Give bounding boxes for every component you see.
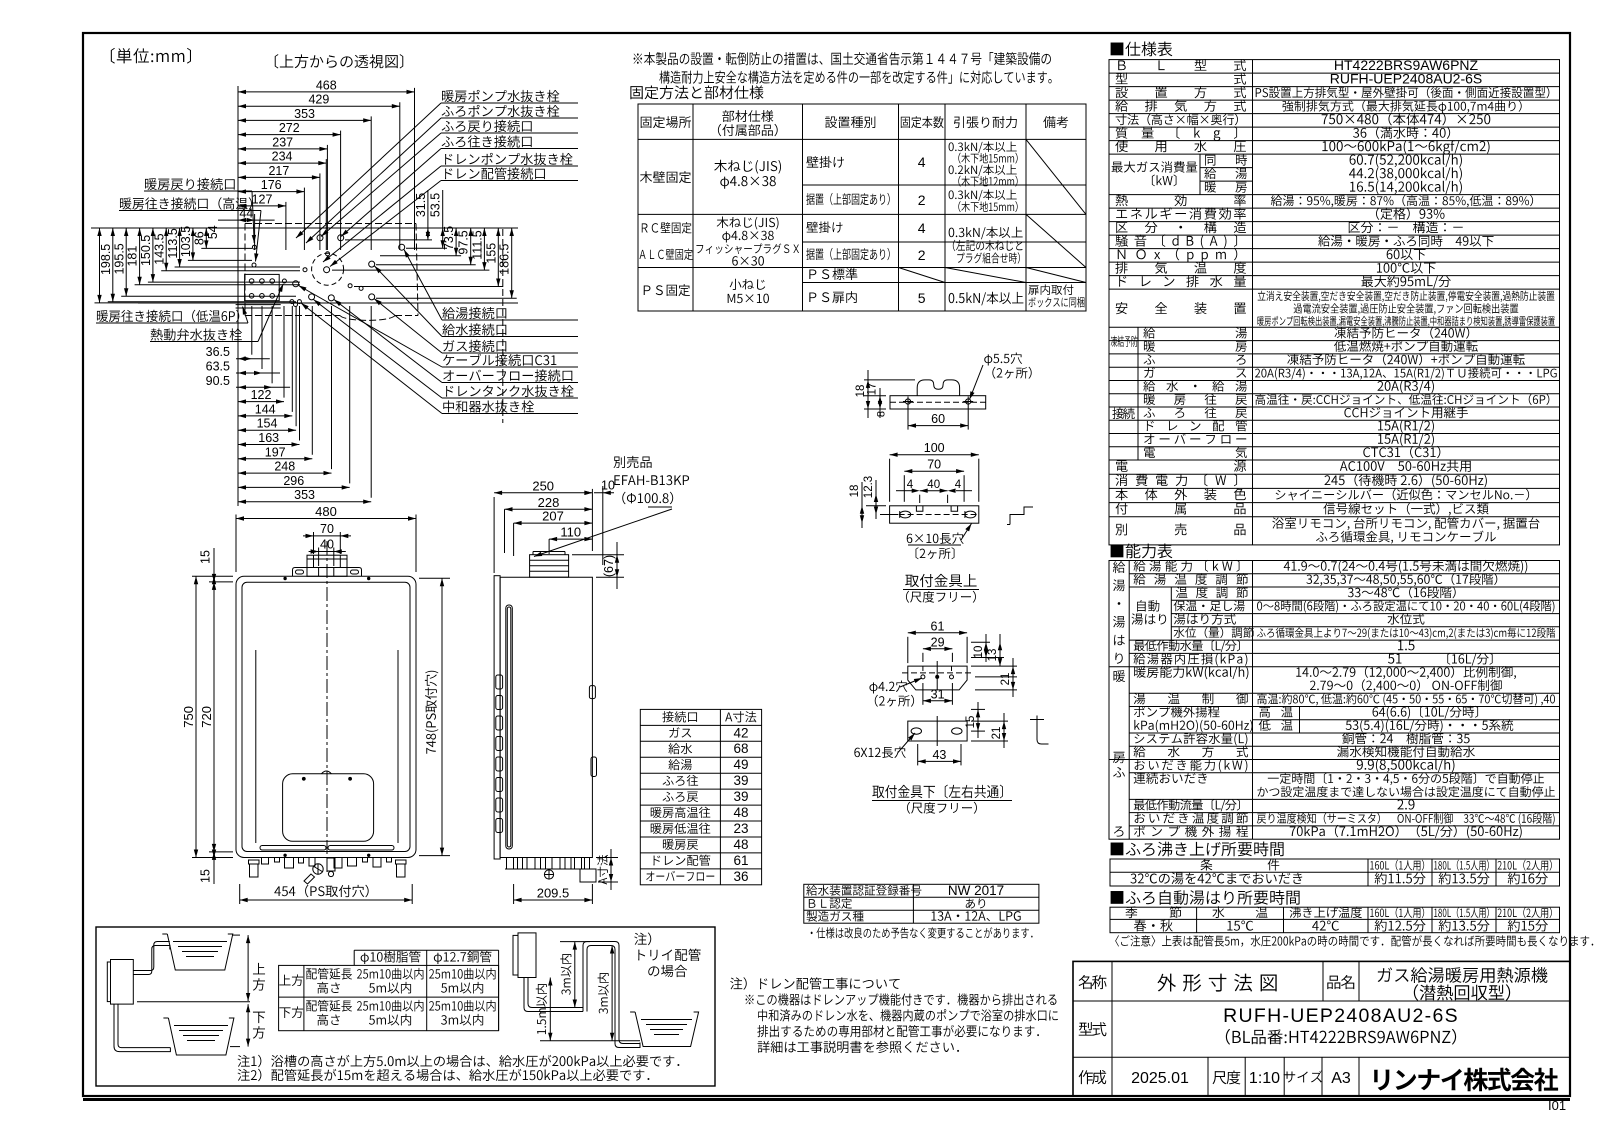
- torii diagram: [518, 933, 536, 978]
- torii dims: [549, 978, 551, 1041]
- unit note: [111, 48, 191, 64]
- svg-text:296: 296: [283, 474, 304, 488]
- box notes: [238, 1055, 680, 1068]
- svg-text:176: 176: [261, 178, 282, 192]
- svg-text:15: 15: [199, 550, 213, 564]
- svg-text:186.5: 186.5: [498, 244, 512, 275]
- bracket lower: part2: [908, 721, 967, 741]
- svg-text:2: 2: [918, 192, 926, 208]
- svg-text:197: 197: [265, 445, 286, 459]
- svg-text:195.5: 195.5: [112, 243, 126, 274]
- bracket lower: part1: [908, 666, 967, 690]
- svg-text:750: 750: [181, 706, 196, 728]
- svg-text:110: 110: [560, 525, 581, 540]
- svg-text:48: 48: [733, 805, 748, 820]
- svg-text:209.5: 209.5: [537, 886, 570, 901]
- svg-text:4: 4: [918, 154, 926, 170]
- svg-text:70: 70: [320, 522, 334, 536]
- svg-text:RUFH-UEP2408AU2-6S: RUFH-UEP2408AU2-6S: [1330, 71, 1483, 87]
- svg-text:228: 228: [538, 495, 560, 510]
- svg-text:(67): (67): [602, 555, 616, 577]
- drain piping note: [730, 977, 899, 990]
- svg-text:86: 86: [192, 231, 206, 245]
- plan bottom dims: [236, 358, 270, 360]
- plan labels right bottom: [442, 307, 506, 319]
- svg-text:720: 720: [199, 706, 214, 728]
- svg-text:127: 127: [252, 192, 273, 206]
- svg-text:21: 21: [991, 727, 1003, 740]
- bracket lower caption: [872, 785, 1003, 799]
- svg-text:4: 4: [955, 479, 962, 491]
- svg-text:40: 40: [927, 479, 940, 491]
- svg-text:97.5: 97.5: [457, 230, 471, 254]
- front dim 750/720/15: [192, 575, 233, 577]
- front body: [236, 576, 416, 857]
- svg-text:61: 61: [733, 853, 748, 868]
- svg-text:353: 353: [294, 488, 315, 502]
- side wall line: [602, 486, 604, 565]
- svg-text:4: 4: [918, 220, 926, 236]
- bracket upper: plan dims: [889, 459, 891, 502]
- plan 6P connector: [249, 279, 254, 284]
- svg-text:A3: A3: [1331, 1070, 1351, 1087]
- fixing method table: [630, 85, 763, 99]
- svg-text:60: 60: [931, 412, 945, 426]
- optional part label: [613, 456, 651, 468]
- svg-text:217: 217: [268, 164, 289, 178]
- bracket upper: plan: [890, 506, 979, 523]
- svg-text:48: 48: [733, 837, 748, 852]
- bracket upper: profile: [890, 396, 986, 409]
- svg-text:17: 17: [867, 383, 879, 396]
- side body: [500, 577, 592, 857]
- lower bath: [163, 1018, 234, 1055]
- plan outline: [91, 227, 518, 229]
- svg-text:248: 248: [274, 460, 295, 474]
- svg-text:234: 234: [272, 150, 293, 164]
- plan labels left: [145, 178, 235, 190]
- svg-text:18: 18: [849, 485, 861, 498]
- plan left dims: [99, 228, 101, 303]
- svg-text:36.5: 36.5: [206, 345, 230, 359]
- torii pipe: [583, 942, 640, 1044]
- svg-text:113.5: 113.5: [166, 228, 180, 258]
- plan top dims: [238, 91, 415, 93]
- svg-text:353: 353: [294, 107, 315, 121]
- svg-text:154: 154: [257, 417, 278, 431]
- capability table: [1111, 543, 1173, 558]
- svg-text:43: 43: [932, 748, 946, 762]
- svg-text:I01: I01: [1548, 1098, 1566, 1113]
- side louvers: [496, 675, 503, 689]
- svg-text:143.5: 143.5: [152, 233, 166, 264]
- piping table: [354, 949, 498, 951]
- bracket upper: profile dims: [864, 379, 915, 381]
- svg-text:12.3: 12.3: [863, 476, 875, 498]
- side vent slot: [506, 605, 513, 849]
- plan right dims: [427, 190, 429, 240]
- side bottom stubs: [507, 858, 514, 870]
- bracket lower: part1 dims: [907, 637, 909, 663]
- pipes upper: [133, 942, 170, 971]
- svg-text:21: 21: [1000, 673, 1012, 686]
- svg-text:53.5: 53.5: [429, 193, 443, 217]
- bracket lower: part2 dims: [971, 708, 985, 710]
- svg-text:23: 23: [733, 821, 748, 836]
- svg-text:480: 480: [315, 504, 337, 519]
- bath heat-up time table: [1111, 842, 1284, 857]
- svg-text:207: 207: [542, 509, 564, 524]
- front access panel: [283, 774, 374, 842]
- svg-text:49: 49: [733, 757, 748, 772]
- front flue: [307, 555, 347, 576]
- svg-text:10: 10: [973, 646, 985, 659]
- piping box: [96, 927, 715, 1086]
- svg-text:RUFH-UEP2408AU2-6S: RUFH-UEP2408AU2-6S: [1223, 1005, 1459, 1027]
- plan labels right top: [442, 90, 559, 102]
- bracket lower L icon: [1030, 716, 1049, 745]
- svg-text:468: 468: [316, 78, 337, 92]
- title block: [1073, 961, 1570, 1096]
- side dim 209.5: [513, 884, 515, 904]
- front dims 480/70/40: [235, 515, 237, 573]
- svg-text:163: 163: [258, 431, 279, 445]
- svg-text:70: 70: [927, 458, 941, 472]
- bracket upper caption: [905, 574, 976, 587]
- svg-text:100: 100: [924, 441, 945, 455]
- svg-text:144: 144: [255, 402, 276, 416]
- front dim 454: [239, 884, 241, 904]
- svg-text:40: 40: [320, 538, 334, 552]
- svg-text:73.5: 73.5: [442, 226, 456, 250]
- side dim A: [596, 857, 618, 859]
- svg-text:8: 8: [876, 411, 888, 417]
- side duct: [530, 555, 569, 578]
- svg-text:237: 237: [272, 135, 293, 149]
- front slots: [260, 846, 326, 851]
- svg-text:1:10: 1:10: [1249, 1070, 1280, 1087]
- heater left: [111, 960, 134, 1005]
- torii bath: [630, 1012, 699, 1047]
- side dims: [493, 497, 495, 573]
- svg-text:61: 61: [931, 619, 945, 633]
- certification table: [804, 884, 1039, 923]
- svg-text:111.5: 111.5: [470, 230, 484, 259]
- connection A-dim table: [640, 709, 761, 884]
- updown dims: [137, 1001, 250, 1003]
- svg-text:63.5: 63.5: [206, 360, 230, 374]
- svg-text:15: 15: [965, 716, 977, 729]
- svg-text:54: 54: [206, 225, 220, 239]
- svg-text:250: 250: [532, 478, 554, 493]
- svg-text:198.5: 198.5: [99, 244, 113, 275]
- svg-text:272: 272: [279, 121, 300, 135]
- svg-text:2025.01: 2025.01: [1131, 1070, 1189, 1087]
- svg-text:5: 5: [918, 290, 926, 306]
- front bottom stubs: [262, 858, 269, 865]
- svg-text:42: 42: [733, 725, 748, 740]
- svg-text:90.5: 90.5: [206, 374, 230, 388]
- svg-text:181: 181: [126, 246, 140, 267]
- svg-text:15: 15: [199, 869, 213, 883]
- svg-text:18: 18: [855, 385, 867, 398]
- svg-text:39: 39: [733, 773, 748, 788]
- top note: [634, 52, 1051, 65]
- svg-text:31: 31: [931, 687, 945, 701]
- front top tabs: [293, 568, 308, 577]
- svg-text:150.5: 150.5: [139, 235, 153, 266]
- front center line: [326, 541, 328, 872]
- spec table: [1111, 41, 1173, 56]
- svg-text:NW 2017: NW 2017: [948, 883, 1004, 898]
- svg-text:13: 13: [987, 649, 999, 662]
- bath auto-fill time table: [1111, 890, 1300, 905]
- svg-text:4: 4: [907, 479, 914, 491]
- front dim 748: [419, 577, 450, 579]
- svg-text:68: 68: [733, 741, 748, 756]
- upper bath: [162, 934, 233, 970]
- svg-text:2: 2: [918, 247, 926, 263]
- svg-text:29: 29: [931, 635, 945, 649]
- svg-text:155: 155: [484, 243, 498, 264]
- svg-text:39: 39: [733, 789, 748, 804]
- svg-text:36: 36: [733, 869, 748, 884]
- svg-text:122: 122: [251, 388, 272, 402]
- side dim 67: [572, 554, 624, 556]
- svg-text:429: 429: [308, 93, 329, 107]
- bracket upper L icon: [1007, 507, 1033, 525]
- svg-text:10: 10: [601, 479, 615, 493]
- plan ports: [317, 235, 323, 241]
- side right details: [589, 686, 595, 699]
- pipes lower: [118, 1004, 170, 1048]
